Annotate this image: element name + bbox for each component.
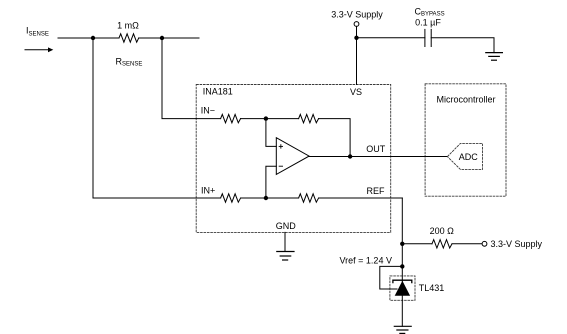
svg-text:Vref = 1.24 V: Vref = 1.24 V (340, 256, 392, 266)
resistor: IN+ input (221, 194, 241, 202)
wire: REF net vertical (401, 198, 403, 326)
junction: IN+ tap (91, 36, 95, 40)
node: inverting input node (264, 116, 268, 120)
wire: feedback resistor to OUT node (319, 119, 351, 157)
wire: node to REF resistor (266, 197, 299, 199)
op-amp U1 (276, 138, 309, 175)
ground (bypass) (485, 53, 503, 61)
wire: junction B down to IN- pin (162, 38, 196, 119)
node: OUT/feedback junction (348, 154, 352, 158)
wire: non-inverting (+) input (266, 119, 276, 147)
wire: TL431 reference loop (380, 266, 403, 289)
svg-text:REF: REF (367, 186, 386, 196)
wire: inverting (-) input (266, 166, 276, 198)
TL431 body box (390, 276, 415, 300)
svg-text:VS: VS (350, 87, 362, 97)
svg-text:ADC: ADC (459, 152, 479, 162)
svg-text:GND: GND (276, 221, 297, 231)
svg-text:3.3-V Supply: 3.3-V Supply (491, 239, 543, 249)
node: non-inverting node (264, 196, 268, 200)
junction: IN- tap (160, 36, 164, 40)
ground (TL431) (394, 326, 412, 333)
wire: CBYPASS to ground (431, 38, 494, 53)
svg-text:INA181: INA181 (203, 87, 233, 97)
wire: node to feedback resistor (266, 118, 299, 120)
IC INA181 boundary box (196, 85, 391, 233)
ground (INA181 GND) (276, 252, 294, 261)
wire: IN+ resistor left lead (196, 197, 220, 199)
resistor: REF feedback (299, 194, 319, 202)
supply terminal (right) (482, 241, 487, 246)
svg-text:0.1 µF: 0.1 µF (415, 18, 441, 28)
resistor 200 Ohm (432, 240, 452, 248)
svg-text:OUT: OUT (366, 144, 386, 154)
wire: junction A down to IN+ pin (93, 38, 196, 198)
wire: node to 200 resistor (402, 243, 432, 245)
TL431 anode triangle (395, 281, 410, 296)
resistor: IN- input (221, 114, 241, 122)
junction: supply/bypass node (354, 36, 358, 40)
wire: GND pin stem (284, 232, 286, 251)
op-amp plus sign (279, 144, 283, 148)
ADC input symbol (447, 143, 482, 169)
wire: REF resistor to REF pin elbow (319, 197, 403, 199)
wire: supply to VS pin (356, 26, 358, 84)
svg-text:1 mΩ: 1 mΩ (117, 21, 139, 31)
op-amp minus sign (279, 165, 283, 167)
wire: node to CBYPASS (357, 37, 425, 39)
capacitor CBYPASS (425, 29, 431, 46)
junction: REF/200 node (400, 242, 404, 246)
wire: IN- resistor left lead (196, 118, 220, 120)
svg-text:Microcontroller: Microcontroller (436, 95, 495, 105)
resistor RSENSE (119, 34, 139, 42)
svg-text:IN+: IN+ (201, 186, 215, 196)
wire: OUT net (309, 156, 447, 158)
wire: IN+ resistor to node (241, 197, 266, 199)
TL431 cathode bar (393, 280, 412, 283)
wire: RSENSE to open stub (139, 37, 199, 39)
current direction arrow (25, 47, 53, 52)
svg-text:IN−: IN− (201, 106, 215, 116)
svg-text:200 Ω: 200 Ω (430, 226, 455, 236)
wire: 200 resistor to supply terminal (452, 243, 482, 245)
IC Microcontroller box (425, 84, 506, 196)
wire: input to RSENSE (58, 37, 119, 39)
resistor: feedback (299, 114, 319, 122)
svg-text:3.3-V Supply: 3.3-V Supply (331, 10, 383, 20)
supply terminal (top) (354, 22, 359, 27)
wire: IN- resistor to node (241, 118, 266, 120)
svg-text:TL431: TL431 (419, 283, 445, 293)
junction: Vref node (400, 264, 404, 268)
